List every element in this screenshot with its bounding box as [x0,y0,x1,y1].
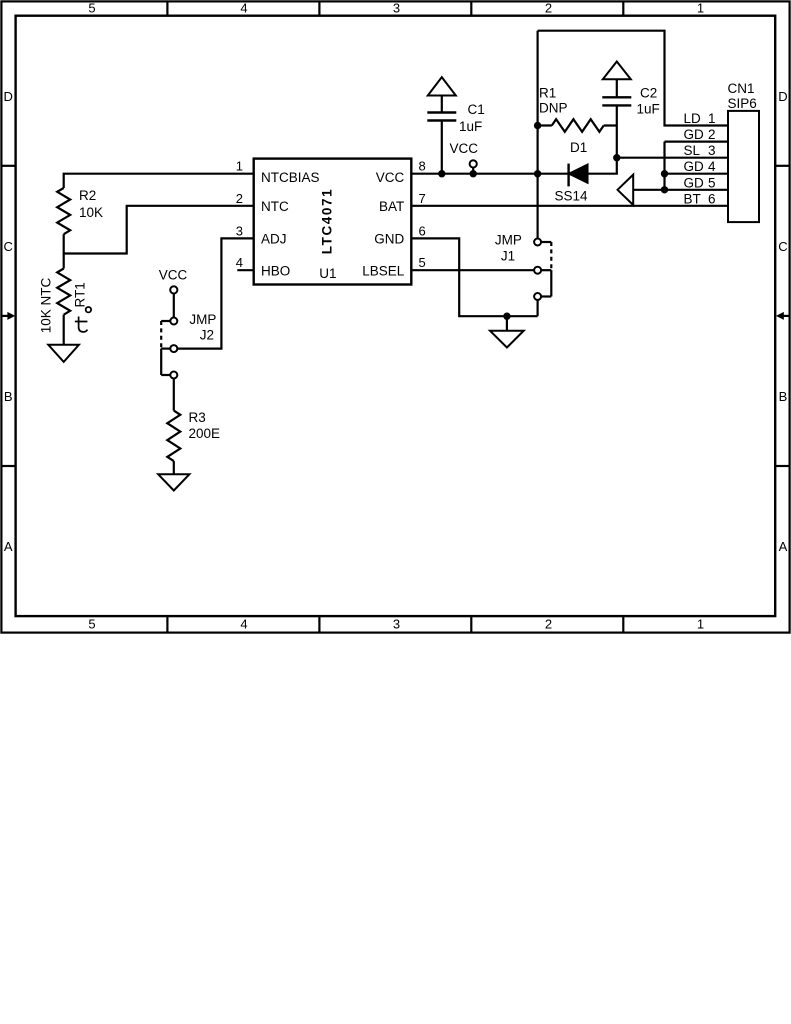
VCC rail pin8 to diode [411,173,568,175]
svg-text:1: 1 [708,111,716,126]
svg-text:C1: C1 [468,102,485,117]
svg-text:3: 3 [393,617,400,632]
left border center arrow [1,312,15,320]
svg-text:CN1: CN1 [728,81,755,96]
svg-text:1uF: 1uF [637,102,660,117]
LD/VCC vertical column [536,31,538,239]
wire pin1 NTCBIAS to R2 top [64,174,254,188]
svg-text:C2: C2 [640,86,657,101]
svg-text:A: A [4,539,13,554]
svg-text:C: C [4,239,13,254]
J2 shunt stub pin1 [161,320,170,322]
svg-text:5: 5 [708,175,716,190]
ground under J1 [490,331,524,348]
C2 stem down to SL node and diode [588,105,617,173]
svg-text:6: 6 [419,223,426,238]
svg-text:C: C [778,239,787,254]
BAT wire pin7 to connector BT6 [411,205,728,207]
LBSEL pin5 wire to J1 [411,269,534,271]
GND pin6 wire to ground [411,238,537,316]
top border tick 3|2 [470,1,472,16]
J1 dashed shunt pin1-pin2 [550,242,552,270]
svg-text:BAT: BAT [379,199,404,214]
wire pin3 ADJ to J2 [177,238,253,348]
jumper J1 pin 3 [534,293,541,300]
svg-text:2: 2 [236,191,243,206]
top wire over to connector LD [538,31,728,126]
J2 solid shunt pin2-pin3 [160,349,162,375]
ground under R3 [158,474,189,490]
right border tick B|A [775,465,790,467]
svg-text:RT1: RT1 [73,282,88,307]
svg-text:JMP: JMP [495,233,522,248]
RT1 thermistor t mark [75,317,88,332]
svg-text:GD: GD [684,159,705,174]
C1 stem to rail [441,121,443,174]
right border tick D|C [775,165,790,167]
wire J1 pin3 down to ground run [536,300,538,316]
left border tick B|A [1,465,16,467]
svg-text:7: 7 [419,191,426,206]
svg-text:LBSEL: LBSEL [362,263,405,278]
op IC U1 body [254,159,412,285]
GD5 wire to connector [633,189,728,191]
thermistor RT1 [57,269,70,315]
VCC power arrow above C1 [428,77,456,95]
svg-text:8: 8 [419,159,426,174]
J2 shunt stub pin2 [161,348,170,350]
GD4 wire to connector [665,173,729,175]
svg-text:VCC: VCC [376,170,405,185]
svg-text:JMP: JMP [189,312,216,327]
junction dot C1/VCC rail [438,170,445,177]
svg-text:4: 4 [240,1,247,16]
svg-text:6: 6 [708,191,716,206]
svg-text:10K NTC: 10K NTC [38,277,53,333]
junction dot VCC port [470,170,477,177]
wire VCC port to J2 pin1 [173,294,175,318]
svg-text:4: 4 [240,617,247,632]
top border tick 2|1 [622,1,624,16]
GND power arrow pointing left [618,175,634,205]
jumper J1 pin 2 [534,267,541,274]
svg-text:SS14: SS14 [555,189,589,204]
svg-text:R3: R3 [189,410,206,425]
resistor R2 [57,188,70,234]
svg-text:VCC: VCC [450,141,479,156]
left border tick D|C [1,165,16,167]
junction dot GD5 [661,186,668,193]
capacitor C2 plates [602,97,631,105]
svg-text:1uF: 1uF [459,119,482,134]
connector CN1 body [728,111,759,222]
svg-text:1: 1 [697,617,704,632]
svg-text:4: 4 [708,159,716,174]
jumper J2 pin 2 [170,345,177,352]
svg-text:SIP6: SIP6 [728,96,757,111]
svg-text:3: 3 [236,223,243,238]
jumper J2 pin 1 [170,318,177,325]
right border center arrow [776,312,790,320]
svg-text:5: 5 [419,255,426,270]
VCC power arrow above C2 [603,62,631,80]
pin4 HBO stub [237,269,253,271]
VCC port circle above J2 [170,286,177,293]
svg-text:D: D [4,89,13,104]
svg-text:SL: SL [684,143,701,158]
svg-text:R1: R1 [539,86,556,101]
bottom border tick 4|3 [318,616,320,633]
svg-text:4: 4 [236,255,243,270]
svg-text:200E: 200E [189,426,221,441]
svg-text:B: B [4,389,13,404]
C2 stem to VCC arrow [616,79,618,97]
jumper J2 pin 3 [170,372,177,379]
bottom border tick 3|2 [470,616,472,633]
svg-text:1: 1 [697,1,704,16]
capacitor C1 plates [427,113,456,121]
wire R2/RT1 node down [63,254,65,269]
C1 stem to VCC arrow [441,96,443,113]
outer border frame [1,1,789,632]
inner border frame [16,16,776,616]
GD column vertical [663,142,665,190]
J2 dashed shunt pin1-pin2 [160,321,162,349]
junction dot VCC rail / LD column [534,170,541,177]
svg-text:B: B [779,389,788,404]
wire R3 to ground [173,461,175,474]
svg-text:BT: BT [684,191,701,206]
top border tick 4|3 [318,1,320,16]
J1 shunt stub pin2 [541,269,551,271]
diode D1 cathode bar [567,164,569,187]
ground under RT1 [48,345,79,362]
junction dot SL node [613,154,620,161]
svg-text:ADJ: ADJ [261,232,287,247]
resistor R3 [167,411,180,462]
svg-text:2: 2 [545,617,552,632]
ground stem [506,316,508,331]
VCC port circle on rail [470,160,477,167]
svg-text:LD: LD [684,111,702,126]
GD2 wire to connector [665,141,729,143]
svg-text:2: 2 [545,1,552,16]
svg-text:LTC4071: LTC4071 [319,188,334,254]
resistor R1 [538,119,617,132]
diode D1 body [569,164,588,183]
jumper J1 pin 1 [534,239,541,246]
wire J2 pin3 to R3 [173,379,175,411]
svg-text:R2: R2 [79,188,96,203]
svg-text:HBO: HBO [261,263,290,278]
svg-text:VCC: VCC [159,268,188,283]
svg-text:U1: U1 [319,266,336,281]
J1 shunt stub pin1 [541,241,551,243]
junction dot R1 left [534,122,541,129]
wire RT1 to ground [63,315,65,345]
RT1 thermistor degree circle [86,307,91,312]
svg-text:J2: J2 [200,328,214,343]
wire R2 bottom junction to pin2 NTC [64,206,254,254]
svg-text:D: D [778,89,787,104]
svg-text:GD: GD [684,175,705,190]
svg-text:2: 2 [708,127,716,142]
svg-text:A: A [779,539,788,554]
junction dot ground node [503,313,510,320]
svg-text:3: 3 [393,1,400,16]
top border tick 5|4 [166,1,168,16]
svg-text:5: 5 [88,617,95,632]
J1 shunt stub pin3 [541,295,551,297]
J1 solid shunt pin2-pin3 [550,270,552,296]
VCC port stem [472,168,474,174]
svg-text:D1: D1 [570,140,587,155]
bottom border tick 2|1 [622,616,624,633]
svg-text:1: 1 [236,159,243,174]
junction dot GD4 [661,170,668,177]
wire SL3 node to connector [617,157,728,159]
svg-text:3: 3 [708,143,716,158]
J2 shunt stub pin3 [161,374,170,376]
svg-text:5: 5 [88,1,95,16]
svg-text:GD: GD [684,127,705,142]
bottom border tick 5|4 [166,616,168,633]
svg-text:GND: GND [374,232,404,247]
svg-text:NTC: NTC [261,199,289,214]
svg-text:NTCBIAS: NTCBIAS [261,170,320,185]
svg-text:J1: J1 [501,248,515,263]
svg-text:DNP: DNP [539,101,568,116]
svg-text:10K: 10K [79,205,103,220]
